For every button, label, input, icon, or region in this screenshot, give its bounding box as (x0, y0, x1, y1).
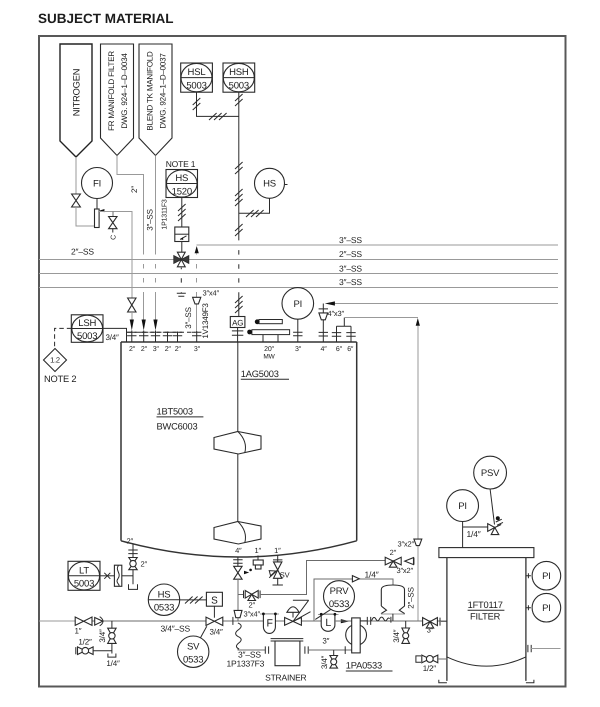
svg-text:BWC6003: BWC6003 (157, 422, 198, 432)
tank top nozzle 3" (x155.5) (151, 331, 160, 343)
tag leader line SV0533 (201, 626, 207, 638)
svg-text:3″–SS: 3″–SS (339, 277, 362, 287)
svg-text:PI: PI (458, 501, 467, 512)
tank top nozzle 6" (x351) (346, 326, 355, 342)
svg-text:6″: 6″ (336, 346, 343, 353)
inline element F (260, 613, 279, 634)
svg-text:3″: 3″ (322, 636, 329, 645)
wire from NITROGEN banner (75, 157, 77, 194)
flow indicator FI (82, 168, 113, 199)
recirculation header into 6" nozzles (337, 318, 352, 327)
globe valve 1/2" (76, 647, 93, 655)
tank bottom nozzle 1" hose connection (253, 556, 263, 570)
svg-text:3/4″–SS: 3/4″–SS (161, 624, 191, 634)
reducer funnel 3"x4" above main line (234, 610, 242, 617)
tank 1BT5003 shell (121, 342, 357, 557)
svg-text:PI: PI (294, 299, 303, 310)
pipe header 3"-SS (low) (39, 286, 558, 288)
dashed level line inside nozzles (127, 331, 195, 333)
svg-text:3/4″: 3/4″ (210, 627, 224, 636)
svg-text:2″–SS: 2″–SS (71, 247, 94, 257)
filter inlet flange (439, 618, 441, 626)
hand switch HS (plain) (255, 168, 288, 198)
agitator impeller lower (214, 522, 261, 545)
tee to 2" recirc branch (238, 593, 243, 595)
wire S to valve (213, 606, 215, 618)
svg-text:3″x4″: 3″x4″ (203, 289, 220, 298)
recirculation pipe from riser (344, 317, 418, 319)
svg-text:STRAINER: STRAINER (265, 672, 306, 682)
solenoid box S (206, 592, 222, 606)
svg-text:3″–SS: 3″–SS (339, 263, 362, 273)
signal hash marks HS run (246, 210, 264, 217)
rotameter body (95, 209, 100, 228)
svg-text:PSV: PSV (481, 468, 500, 479)
pipe header 2"-SS (39, 258, 558, 260)
svg-text:SV: SV (187, 641, 200, 652)
pressure indicator PI (filter side 2) (526, 593, 561, 622)
svg-text:LSH: LSH (78, 318, 96, 329)
svg-text:3/4″: 3/4″ (98, 629, 107, 643)
drain tee 3/4" on discharge (405, 621, 407, 628)
3-way valve 2" (recirc) (385, 557, 401, 567)
signal wire HSL to junction (197, 92, 239, 116)
tank top nozzle 4" with 4"x3" reducer vent (319, 301, 335, 342)
pump suction flange (344, 646, 346, 654)
instrument HS 1520 (166, 170, 198, 198)
svg-text:1P1337F3: 1P1337F3 (227, 658, 265, 668)
svg-text:1/4″: 1/4″ (467, 529, 481, 539)
tag leader PRV (315, 610, 330, 620)
ball valve 3/4" (vertical) (108, 628, 116, 643)
dashed signal wire LSH to note diamond (55, 328, 72, 348)
pipe cap below 4-way valve (177, 293, 186, 296)
pipe header 3"-SS (mid) (39, 273, 558, 275)
wire to 1/4" cap (111, 643, 113, 653)
tank bottom nozzle 4" (233, 557, 242, 566)
wire valve to nozzle (131, 312, 133, 320)
signal hash marks (235, 189, 243, 206)
capped outlet stub on filter side (528, 645, 561, 652)
wire seal to nozzle leg (122, 575, 133, 577)
wire 4-way valve drain leg (180, 268, 182, 294)
strainer flanges right (305, 646, 308, 653)
svg-text:0533: 0533 (183, 655, 203, 666)
svg-text:3″x2″: 3″x2″ (397, 566, 414, 575)
wire 1/4" branch to PSV valve (463, 526, 489, 528)
svg-text:AG: AG (232, 319, 243, 328)
pressure indicator PI (filter top) (447, 490, 479, 522)
flow arrow up on riser (416, 318, 420, 326)
reducer 3"x2" on riser (414, 539, 422, 546)
svg-text:PI: PI (542, 571, 551, 582)
vent valve C on nitrogen line (109, 212, 118, 240)
svg-text:2″: 2″ (390, 548, 397, 557)
wire FI to rotameter (96, 199, 98, 210)
pipe header 3"-SS (top) (197, 244, 558, 246)
tank top nozzle 6" (x336.5) (332, 326, 341, 342)
svg-text:HS: HS (175, 173, 188, 184)
svg-text:1520: 1520 (172, 186, 192, 197)
wire PSV to relief valve (490, 489, 494, 525)
svg-text:3″: 3″ (427, 625, 434, 634)
note diamond 1.2 (44, 349, 67, 372)
pulsation dampener (381, 585, 405, 623)
svg-text:1/2″: 1/2″ (423, 664, 437, 673)
signal hash marks (235, 162, 243, 174)
signal hash marks (235, 224, 243, 236)
restriction 1/4" on loop (352, 576, 359, 582)
wire branch to 1/2" valve (94, 650, 112, 652)
tank side nozzle 2" (128, 544, 137, 558)
tank top nozzle 3" PI (x297.8) (293, 316, 302, 342)
svg-text:3/4″: 3/4″ (106, 333, 120, 342)
svg-text:S: S (211, 596, 218, 607)
svg-text:1/4″: 1/4″ (365, 570, 379, 580)
svg-text:1P1311F3: 1P1311F3 (162, 199, 169, 229)
svg-text:3″: 3″ (295, 346, 302, 353)
signal hash marks above AG (235, 296, 243, 313)
wire recirc bypass up (260, 561, 385, 595)
filter inlet 3-way valve 3" (423, 618, 438, 629)
wire 4" drain column (237, 579, 239, 610)
flow arrow into pump (341, 619, 350, 623)
ball valve 3/4" (discharge drain) (402, 628, 410, 643)
agitator motor box AG (230, 317, 245, 328)
svg-text:1.2: 1.2 (50, 356, 60, 365)
svg-text:1AG5003: 1AG5003 (241, 369, 279, 379)
svg-text:1BT5003: 1BT5003 (157, 407, 193, 417)
control valve with diaphragm actuator (285, 600, 311, 625)
pipe cap 1/4" (108, 654, 116, 658)
wire funnel to main line (237, 618, 239, 621)
flow arrow into tank nozzle 2 (142, 320, 146, 331)
svg-text:HSL: HSL (188, 67, 206, 78)
svg-text:3″–SS: 3″–SS (146, 209, 155, 230)
svg-text:4″: 4″ (321, 346, 328, 353)
bottom outlet valve (3-way) on 4" leg (234, 566, 252, 579)
svg-text:PRV: PRV (330, 586, 350, 597)
tank top nozzle 2" (x132) (127, 331, 136, 343)
svg-text:4″x3″: 4″x3″ (328, 309, 345, 318)
flow arrow into tank nozzle 3 (153, 320, 157, 331)
svg-text:1/4″: 1/4″ (106, 659, 120, 668)
svg-text:5003: 5003 (186, 80, 206, 91)
svg-text:NITROGEN: NITROGEN (72, 69, 82, 116)
svg-text:LT: LT (79, 566, 89, 577)
svg-text:L: L (325, 617, 331, 629)
svg-text:5003: 5003 (229, 80, 249, 91)
relief valve on filter lid (angle) (488, 516, 503, 534)
svg-text:2″: 2″ (141, 560, 148, 569)
flow arrow into tank nozzle 1 (130, 320, 134, 331)
svg-text:0533: 0533 (329, 599, 349, 610)
svg-text:0533: 0533 (154, 603, 174, 614)
svg-text:FR MANIFOLD FILTER: FR MANIFOLD FILTER (107, 51, 116, 131)
3-way valve 2" (245, 591, 258, 601)
instrument HSL 5003 (181, 63, 213, 92)
level transmitter LT 5003 (68, 561, 100, 590)
suction pipe to pump (308, 649, 352, 651)
svg-text:1V1349F3: 1V1349F3 (201, 303, 210, 339)
solenoid valve 3/4" (206, 617, 223, 625)
wire 2" from FR MANIFOLD banner (117, 156, 144, 320)
signal hash marks (185, 597, 203, 604)
pressure indicator PI (filter side 1) (526, 561, 561, 590)
wire 3"-SS from BLEND TK banner (155, 156, 157, 320)
svg-text:3″: 3″ (194, 346, 201, 353)
instrument LSH 5003 (71, 315, 103, 343)
agitator impeller upper (214, 432, 261, 455)
svg-text:HS: HS (158, 589, 171, 600)
pressure indicator PI (tank top) (282, 288, 314, 320)
svg-text:1/2″: 1/2″ (78, 638, 92, 647)
svg-text:F: F (266, 618, 272, 630)
svg-text:2″: 2″ (129, 346, 136, 353)
svg-text:2″: 2″ (141, 346, 148, 353)
wire PI to filter lid (462, 522, 464, 548)
valve on nitrogen line (72, 194, 81, 207)
valve on 2" tank feed (128, 298, 136, 312)
safety valve SV (269, 562, 283, 585)
signal wire HS0533 to S (180, 599, 207, 601)
tank bottom nozzle 1" SV vent (273, 556, 282, 562)
svg-text:3″x2″: 3″x2″ (398, 539, 415, 548)
strainer body (271, 639, 304, 666)
main drain pipe 3/4"-SS (39, 620, 75, 622)
signal wire HS to HSH leg (239, 198, 270, 213)
signal hash marks HSL leg (193, 98, 201, 110)
svg-text:20″: 20″ (264, 346, 274, 353)
off-page banner NITROGEN (60, 44, 92, 157)
tank top nozzle 3" vent (x196.7) (192, 331, 201, 342)
gate valve 1" (75, 617, 92, 625)
pipe cap below LT leg (129, 584, 138, 589)
wire hose to strainer (238, 649, 265, 650)
drain tee 3/4" on suction (333, 650, 335, 655)
vent line 3" from 4"x3" reducer (334, 303, 558, 305)
PRV relief loop (314, 579, 393, 621)
svg-text:3″: 3″ (153, 346, 160, 353)
svg-text:3″–SS: 3″–SS (339, 235, 362, 245)
svg-text:2″: 2″ (130, 186, 139, 193)
svg-text:BLEND TK MANIFOLD: BLEND TK MANIFOLD (146, 51, 155, 131)
strainer flanges left (265, 646, 268, 653)
wire valve to filter (441, 621, 447, 623)
svg-text:3″–SS: 3″–SS (184, 307, 193, 328)
svg-text:MW: MW (263, 353, 275, 360)
wire valve to cap (132, 570, 134, 585)
flexible hose on discharge (372, 617, 390, 621)
capillary wire LT to seal (100, 575, 114, 577)
off-page banner FR MANIFOLD FILTER DWG. 924-1-D-0034 (101, 44, 134, 156)
flange tick on main line (232, 617, 234, 625)
svg-text:2″: 2″ (165, 346, 172, 353)
filter vessel 1FT0117 (439, 548, 534, 683)
svg-text:SV: SV (280, 571, 290, 580)
signal wire HSH down to AG (238, 92, 240, 316)
AG nozzle flanges (232, 328, 243, 343)
svg-text:5003: 5003 (77, 331, 97, 342)
4-way valve on 2"-SS header (174, 252, 189, 267)
svg-text:PI: PI (542, 603, 551, 614)
flow arrow up into 3"-SS header (195, 246, 199, 253)
svg-text:C: C (111, 235, 118, 240)
svg-text:1PA0533: 1PA0533 (346, 661, 382, 671)
ball valve 3/4" (suction drain) (330, 656, 338, 669)
ball valve on 2" LT leg (129, 558, 137, 570)
svg-text:NOTE 2: NOTE 2 (44, 374, 76, 384)
solenoid actuator box 1P1311F3 (175, 227, 189, 242)
svg-text:FI: FI (93, 178, 101, 189)
wire L to pump (335, 620, 352, 622)
svg-text:1″: 1″ (254, 546, 261, 555)
tank top spare nozzle 2" (x167.5) (163, 332, 172, 343)
svg-text:HSH: HSH (229, 67, 249, 78)
svg-text:6″: 6″ (347, 346, 354, 353)
svg-text:2″: 2″ (127, 537, 134, 546)
signal hash marks HSH leg (235, 94, 243, 106)
wire LSH to tank 3/4" nozzle (103, 328, 127, 342)
svg-text:DWG. 924–1–D–0034: DWG. 924–1–D–0034 (120, 53, 129, 129)
check valve to riser (405, 558, 414, 565)
riser pipe 2"-SS from pump discharge (417, 326, 419, 621)
solenoid valve SV 0533 bubble (178, 636, 209, 667)
signal hash marks horizontal run (209, 113, 227, 120)
wire nitrogen valve to rotameter (76, 207, 94, 226)
pump 1PA0533 (346, 618, 367, 653)
agitator shaft (237, 342, 239, 522)
svg-text:4″: 4″ (235, 546, 242, 555)
svg-text:3″x4″: 3″x4″ (244, 609, 261, 618)
drain valve 1/2" on filter bottom (416, 655, 447, 663)
signal hash marks (178, 204, 186, 221)
wire rotameter to tank feed (99, 212, 132, 298)
inline element L (318, 613, 339, 631)
svg-text:SUBJECT MATERIAL: SUBJECT MATERIAL (38, 11, 174, 26)
tank top spare nozzle 2" (x177.5) (173, 332, 182, 343)
hand switch HS 0533 (148, 584, 179, 615)
pump discharge flanges (360, 617, 371, 625)
svg-text:NOTE 1: NOTE 1 (166, 159, 196, 169)
svg-text:1″: 1″ (274, 546, 281, 555)
diaphragm seal (114, 565, 121, 586)
svg-text:1″: 1″ (75, 627, 82, 636)
wire hose to dampener stub (390, 620, 418, 622)
off-page banner BLEND TK MANIFOLD DWG. 924-1-D-0037 (139, 44, 172, 156)
flange ticks 2" branch (244, 591, 261, 599)
reducer 3"x4" on vent leg (193, 297, 201, 304)
svg-text:1FT0117: 1FT0117 (468, 600, 503, 610)
wire solenoid to valve (181, 242, 183, 255)
svg-text:2″: 2″ (248, 601, 255, 610)
capillary x mark (104, 573, 110, 579)
arrow at rotameter outlet (99, 209, 104, 212)
check valve (95, 617, 103, 626)
tank top nozzle 2" (x143.7) (139, 331, 148, 343)
svg-text:HS: HS (263, 179, 276, 190)
svg-text:FILTER: FILTER (470, 612, 501, 622)
wire vent leg from tank nozzle 3" (196, 253, 198, 331)
svg-text:2″: 2″ (175, 346, 182, 353)
instrument HSH 5003 (223, 63, 255, 92)
flexible hose to strainer (236, 623, 242, 649)
pressure safety valve PSV bubble (474, 456, 507, 489)
signal wire HS1520 to solenoid (181, 198, 183, 228)
manway 20" MW (247, 319, 289, 342)
wire to 3/4" drain tee (111, 621, 113, 628)
svg-text:DWG. 924–1–D–0037: DWG. 924–1–D–0037 (159, 53, 168, 129)
svg-text:3/4″: 3/4″ (392, 629, 401, 643)
relief valve PRV 0533 bubble (324, 581, 355, 612)
svg-text:2″–SS: 2″–SS (339, 249, 362, 259)
svg-text:5003: 5003 (74, 579, 94, 590)
svg-text:2″–SS: 2″–SS (406, 587, 415, 608)
svg-text:3/4″: 3/4″ (320, 656, 329, 670)
